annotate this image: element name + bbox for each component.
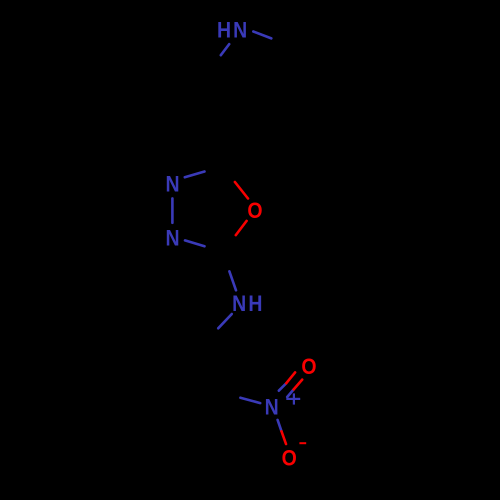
svg-text:H: H — [248, 292, 262, 317]
svg-text:O: O — [247, 199, 262, 224]
svg-text:N: N — [232, 292, 246, 317]
svg-text:O: O — [301, 355, 316, 380]
svg-text:N: N — [233, 18, 247, 43]
svg-text:N: N — [165, 172, 179, 197]
svg-text:H: H — [217, 18, 231, 43]
svg-text:N: N — [265, 395, 279, 420]
svg-text:N: N — [165, 226, 179, 251]
svg-text:O: O — [282, 446, 297, 471]
